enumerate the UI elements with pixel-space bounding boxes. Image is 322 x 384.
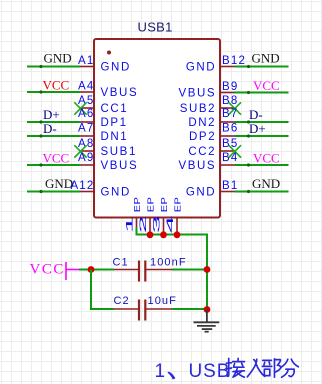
pin B12 <box>220 66 235 68</box>
svg-text:VBUS: VBUS <box>101 160 139 172</box>
svg-text:B5: B5 <box>222 138 238 150</box>
svg-text:DP1: DP1 <box>101 117 128 129</box>
pin A1 <box>80 66 94 68</box>
svg-text:B8: B8 <box>222 95 238 107</box>
svg-text:DN1: DN1 <box>101 131 129 143</box>
svg-text:D+: D+ <box>43 107 60 122</box>
title text: 1、USB接入部分 <box>155 361 231 382</box>
no-connect X on B8 <box>229 102 241 114</box>
wire EP bus to trunk <box>137 227 208 310</box>
svg-text:VBUS: VBUS <box>178 160 216 172</box>
wire VCC A4 <box>27 91 80 93</box>
wire GND B1 <box>235 191 289 193</box>
hanzi 接 <box>226 358 244 377</box>
wire C2 to ground node <box>172 308 207 310</box>
svg-text:GND: GND <box>101 62 131 74</box>
wire VCC B4 <box>235 164 289 166</box>
hanzi 分 <box>281 359 299 377</box>
svg-text:A8: A8 <box>78 138 94 150</box>
pin A6 <box>80 121 94 123</box>
hanzi 部 <box>262 359 280 377</box>
svg-text:GND: GND <box>186 62 216 74</box>
svg-text:D+: D+ <box>249 121 266 136</box>
svg-text:VBUS: VBUS <box>101 87 139 99</box>
wire GND A12 <box>27 191 80 193</box>
junction dot EP3 <box>160 231 167 238</box>
svg-text:1: 1 <box>125 211 135 233</box>
junction node C1/trunk <box>204 266 211 273</box>
svg-text:A9: A9 <box>78 152 94 164</box>
svg-text:B9: B9 <box>222 81 238 93</box>
svg-text:B7: B7 <box>222 108 238 120</box>
svg-text:GND: GND <box>252 176 280 191</box>
pin EP2 <box>149 218 151 235</box>
svg-text:B4: B4 <box>222 152 238 164</box>
svg-text:USB1: USB1 <box>138 20 173 35</box>
wire C1 to trunk <box>172 269 207 271</box>
svg-text:GND: GND <box>252 51 280 66</box>
wire VCC to C1 <box>79 269 114 271</box>
svg-text:GND: GND <box>186 187 216 199</box>
wire VCC branch down to C2 <box>91 270 114 310</box>
wire D+ B6 <box>235 135 289 137</box>
pin EP3 <box>163 218 165 235</box>
svg-text:C1: C1 <box>113 257 129 269</box>
svg-text:C2: C2 <box>114 295 130 307</box>
svg-text:VCC: VCC <box>30 262 65 278</box>
wire D- A7 <box>27 135 80 137</box>
svg-text:10uF: 10uF <box>148 295 177 307</box>
wire GND A1 <box>27 66 80 68</box>
dun comma 、 <box>167 372 175 380</box>
designator dot of USB1 <box>107 51 111 55</box>
junction node VCC <box>88 266 95 273</box>
pin A8 no-connect <box>81 150 95 152</box>
capacitor C1 <box>114 269 139 271</box>
svg-text:3: 3 <box>152 211 162 233</box>
svg-text:GND: GND <box>101 187 131 199</box>
svg-text:VCC: VCC <box>253 78 280 93</box>
svg-text:GND: GND <box>44 51 72 66</box>
wire D+ A6 <box>27 121 80 123</box>
pin B5 no-connect <box>220 150 234 152</box>
svg-text:B12: B12 <box>222 55 246 67</box>
svg-text:VCC: VCC <box>253 151 280 166</box>
svg-text:A4: A4 <box>78 81 94 93</box>
junction dot EP2 <box>147 231 154 238</box>
no-connect X on A8 <box>74 145 86 157</box>
pin B1 <box>220 191 235 193</box>
pin EP4 <box>176 218 178 235</box>
svg-text:USB: USB <box>189 361 231 382</box>
pin A7 <box>80 135 94 137</box>
pin A12 <box>80 191 94 193</box>
pin B8 no-connect <box>220 107 234 109</box>
junction node ground <box>204 306 211 313</box>
capacitor C2 <box>114 308 139 310</box>
wire VCC A9 <box>27 164 80 166</box>
pin A5 no-connect <box>81 107 95 109</box>
wire D- B7 <box>235 121 289 123</box>
svg-text:VCC: VCC <box>43 78 70 93</box>
connector USB1 body <box>94 39 220 218</box>
svg-text:D-: D- <box>249 107 263 122</box>
wire GND B12 <box>235 66 289 68</box>
svg-text:GND: GND <box>45 176 73 191</box>
svg-text:B6: B6 <box>222 123 238 135</box>
pin B9 <box>220 92 235 94</box>
pin EP1 <box>136 218 138 229</box>
svg-text:1: 1 <box>155 361 166 382</box>
svg-text:4: 4 <box>165 211 175 233</box>
wire VCC B9 <box>235 92 289 94</box>
svg-text:SUB2: SUB2 <box>180 103 216 115</box>
no-connect X on A5 <box>74 102 86 114</box>
pin A9 <box>80 164 94 166</box>
svg-text:A6: A6 <box>78 108 94 120</box>
ground <box>194 310 220 332</box>
junction dot EP4 <box>174 231 181 238</box>
svg-text:A5: A5 <box>78 95 94 107</box>
svg-text:DP2: DP2 <box>189 131 216 143</box>
svg-text:A7: A7 <box>78 123 94 135</box>
no-connect X on B5 <box>229 145 241 157</box>
svg-text:A12: A12 <box>70 180 94 192</box>
svg-text:VCC: VCC <box>43 151 70 166</box>
pin B6 <box>220 135 235 137</box>
svg-text:DN2: DN2 <box>188 117 216 129</box>
svg-text:B1: B1 <box>222 180 238 192</box>
svg-text:CC2: CC2 <box>188 146 216 158</box>
svg-text:SUB1: SUB1 <box>101 146 137 158</box>
svg-text:2: 2 <box>138 211 148 233</box>
svg-text:D-: D- <box>43 121 57 136</box>
svg-text:A1: A1 <box>78 55 94 67</box>
hanzi 入 <box>247 359 264 377</box>
svg-text:100nF: 100nF <box>150 257 187 269</box>
svg-text:CC1: CC1 <box>101 103 129 115</box>
pin B4 <box>220 164 235 166</box>
svg-text:VBUS: VBUS <box>178 88 216 100</box>
pin B7 <box>220 121 235 123</box>
pin A4 <box>80 91 94 93</box>
